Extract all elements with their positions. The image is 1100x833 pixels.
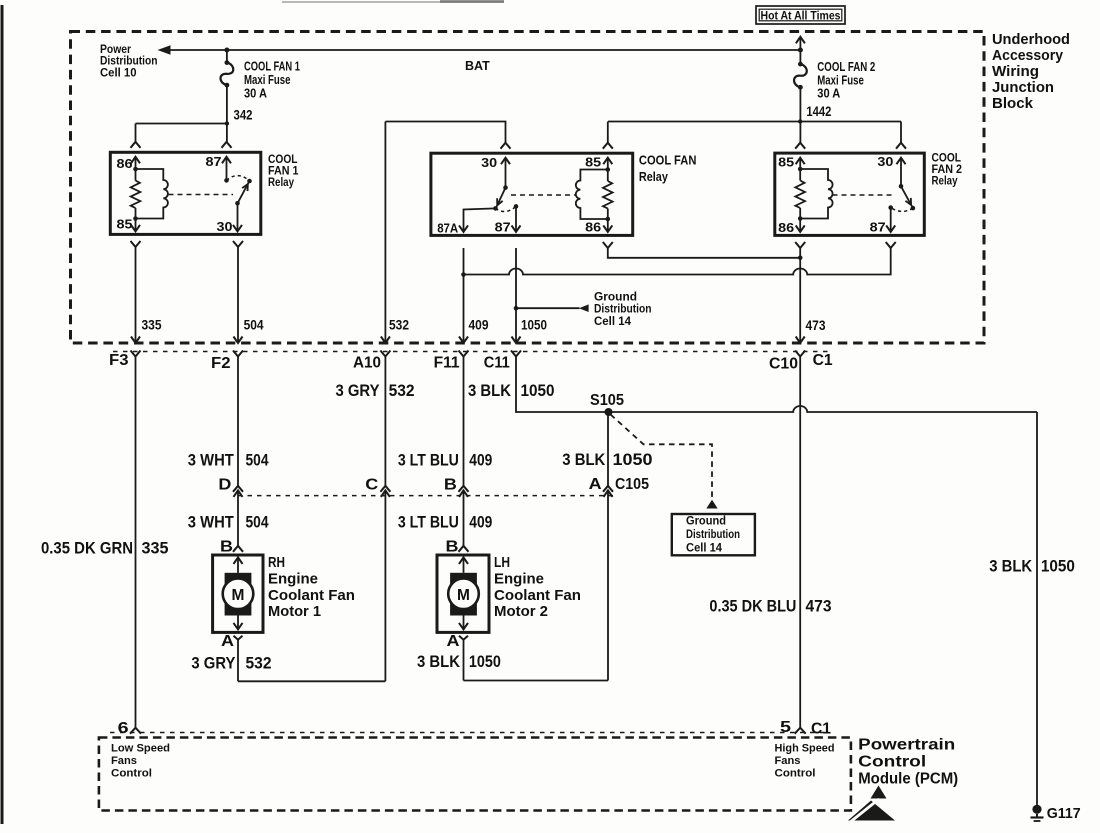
svg-text:Coolant Fan: Coolant Fan	[494, 587, 581, 604]
svg-text:Fans: Fans	[111, 755, 137, 767]
relay K1 pin 30 wire	[237, 203, 239, 231]
svg-text:Ground: Ground	[686, 516, 726, 528]
node relay K1 switch arm tip contact	[247, 179, 252, 184]
svg-text:A: A	[447, 633, 460, 650]
svg-text:473: 473	[806, 597, 832, 616]
svg-text:B: B	[444, 477, 457, 494]
connector A10 fork	[380, 351, 390, 357]
wire 1050 C105 A down	[607, 490, 609, 680]
wire 86s to 473 junction	[608, 248, 800, 258]
wire 409 relay K3 87A to F11	[463, 248, 465, 343]
wire S105 bus to G117 branch	[602, 406, 1037, 412]
svg-text:C10: C10	[769, 356, 798, 373]
svg-text:C1: C1	[813, 352, 833, 369]
node relay K3 coil bottom	[606, 217, 611, 222]
relay K2 switch travel dashed arc	[891, 208, 913, 212]
svg-text:1050: 1050	[469, 652, 501, 671]
svg-text:Low Speed: Low Speed	[111, 743, 170, 755]
node relay K1 switch fixed contact	[224, 178, 229, 183]
svg-text:1050: 1050	[521, 317, 547, 333]
connector interface line below junction block	[113, 351, 833, 353]
ESD sensitive device symbol	[871, 786, 887, 799]
wire relay K2 pin 86 stub	[799, 248, 801, 258]
svg-text:85: 85	[585, 155, 601, 170]
node relay K1 coil top	[133, 167, 138, 172]
svg-text:Junction: Junction	[992, 79, 1054, 96]
node relay K2 coil top	[798, 167, 803, 172]
svg-text:C11: C11	[484, 355, 510, 372]
wire rail fuse2 to relay K2 pins	[608, 121, 901, 123]
wire to Ground Distribution Cell 14 reference	[516, 307, 580, 309]
svg-text:504: 504	[246, 451, 269, 470]
dashed reference wire S105 to Ground Distribution Cell 14	[611, 415, 713, 499]
wire BAT feed	[168, 49, 800, 51]
relay K1 switch arm	[238, 183, 249, 204]
svg-text:3 GRY: 3 GRY	[191, 654, 236, 673]
arrow to Power Distribution Cell 10	[158, 45, 171, 54]
svg-text:1050: 1050	[1041, 557, 1075, 576]
wire 3 BLK 1050 S105 to G117	[1036, 412, 1038, 805]
motor brush top	[450, 573, 477, 585]
relay K3 switch travel dashed arc	[496, 206, 517, 211]
relay K1 pin 86 connector	[131, 142, 141, 148]
svg-text:87: 87	[870, 220, 886, 235]
svg-text:Accessory: Accessory	[992, 47, 1064, 64]
svg-text:335: 335	[142, 539, 169, 558]
svg-text:A10: A10	[353, 355, 381, 372]
connector C10 fork	[795, 351, 805, 357]
relay K3 pin 85 connector	[603, 143, 613, 149]
svg-text:0.35 DK BLU: 0.35 DK BLU	[709, 597, 796, 616]
node relay K3 switch pivot	[503, 185, 508, 190]
wire ground rail 87A to relay K2 pin 87	[464, 248, 891, 275]
relay K2 switch arm	[901, 186, 912, 206]
relay K1 actuate dashed link	[169, 194, 234, 196]
svg-text:F2: F2	[211, 355, 231, 372]
wire 532 C105 C down	[384, 490, 386, 681]
relay K3 pin 86 wire	[607, 219, 609, 232]
svg-text:B: B	[446, 539, 459, 556]
wire 1050 C11 to S105	[516, 357, 602, 413]
motor armature circle M	[448, 579, 479, 610]
svg-text:Wiring: Wiring	[992, 63, 1039, 80]
node junction 1050 / ground reference	[514, 306, 519, 311]
svg-text:Module (PCM): Module (PCM)	[858, 771, 958, 788]
svg-text:532: 532	[246, 654, 272, 673]
wire 3 LT BLU 409 C105 B to motor2 pin B	[459, 490, 468, 497]
svg-text:30: 30	[217, 219, 233, 234]
motor output arrow	[237, 616, 239, 630]
svg-text:1050: 1050	[613, 450, 653, 469]
wire motor1 pin A down	[237, 640, 239, 682]
svg-text:F11: F11	[434, 355, 460, 372]
svg-text:Fans: Fans	[775, 755, 801, 767]
coil relay K2	[800, 169, 832, 219]
relay K2 pin 86 connector below	[795, 242, 805, 248]
page top edge mark	[282, 1, 504, 3]
svg-text:30: 30	[877, 154, 893, 169]
wire 0.35 DK BLU 473 C10 to PCM pin 5	[799, 357, 801, 728]
relay K3 pin 87 wire	[515, 206, 517, 232]
svg-text:87: 87	[206, 154, 222, 169]
svg-text:LH: LH	[494, 554, 510, 571]
relay K1 pin 87 connector	[222, 142, 232, 148]
wire to fuse 2	[799, 50, 801, 64]
svg-text:409: 409	[469, 512, 492, 531]
motor feed arrow	[234, 557, 243, 564]
node splice S105	[605, 408, 613, 416]
svg-text:C105: C105	[615, 476, 649, 493]
relay K3 COOL FAN Relay box	[431, 153, 633, 235]
svg-text:COOL FAN 2: COOL FAN 2	[817, 60, 875, 74]
svg-text:3 BLK: 3 BLK	[562, 450, 606, 469]
node BAT / fuse1 junction	[224, 48, 229, 53]
svg-text:Relay: Relay	[932, 174, 958, 188]
relay K3 pin 30 connector	[501, 143, 511, 149]
svg-text:B: B	[220, 539, 233, 556]
relay K2 COOL FAN 2 Relay box	[775, 153, 925, 235]
svg-text:409: 409	[469, 317, 489, 333]
wire 3 WHT 504 C105 D to motor1 pin B	[234, 490, 243, 497]
svg-text:Engine: Engine	[494, 571, 544, 588]
svg-text:3 LT BLU: 3 LT BLU	[398, 451, 459, 470]
svg-text:1050: 1050	[521, 381, 555, 400]
svg-text:High Speed: High Speed	[775, 743, 835, 755]
connector C105 pin C	[380, 486, 390, 492]
connector F11 fork	[459, 351, 469, 357]
resistor relay K1	[131, 181, 141, 209]
wire 0.35 DK GRN 335 F3 to PCM pin 6	[135, 357, 137, 728]
svg-text:Cell 14: Cell 14	[686, 543, 723, 555]
ground G117	[1032, 805, 1041, 814]
node relay K2 coil bottom	[798, 216, 803, 221]
Powertrain Control Module PCM dashed box	[99, 738, 851, 811]
svg-text:335: 335	[142, 317, 162, 333]
wire rail to relay K3 pin 85	[607, 122, 609, 143]
relay K2 pin 30 connector	[896, 143, 906, 149]
wire 3 GRY 532 A10 to C105 pin C	[384, 357, 386, 486]
svg-text:0.35 DK GRN: 0.35 DK GRN	[41, 539, 133, 558]
svg-text:85: 85	[117, 217, 133, 232]
svg-text:86: 86	[117, 156, 133, 171]
svg-text:3 BLK: 3 BLK	[989, 557, 1033, 576]
motor brush bottom	[225, 603, 252, 616]
relay K1 pin 87 wire	[226, 157, 228, 181]
connector C105 interface line	[238, 495, 614, 497]
wire 3 LT BLU 409 F11 to C105 pin B	[463, 357, 465, 486]
svg-text:Motor 2: Motor 2	[494, 603, 548, 620]
node junction 473	[798, 255, 803, 260]
motor brush bottom	[450, 603, 477, 616]
wire 1050 across to motor2 pin A	[464, 680, 609, 682]
svg-text:RH: RH	[268, 554, 285, 571]
wire 3 WHT 504 F2 to C105 pin D	[237, 357, 239, 486]
svg-text:85: 85	[778, 154, 794, 169]
svg-text:Hot At All Times: Hot At All Times	[761, 8, 841, 22]
svg-text:532: 532	[389, 317, 409, 333]
svg-text:86: 86	[585, 219, 601, 234]
node rail/fuse2 junction	[798, 119, 802, 123]
motor armature circle M	[223, 579, 254, 610]
relay K1 pin 85 connector below	[131, 241, 141, 247]
relay K2 pin 87 connector below	[886, 242, 896, 248]
svg-text:3 LT BLU: 3 LT BLU	[398, 512, 459, 531]
svg-text:Relay: Relay	[268, 175, 294, 189]
wire 532 across to motor1 pin A	[238, 680, 385, 682]
wire 3 BLK 1050 S105 down to C105 pin A	[607, 412, 609, 486]
wire A10 down to junction block exit	[384, 122, 386, 344]
node relay K3 switch arm tip	[493, 206, 498, 211]
resistor relay K2	[795, 181, 805, 209]
wire motor2 pin A down	[463, 640, 465, 681]
node relay K3 contact 87	[514, 204, 519, 209]
svg-text:30 A: 30 A	[817, 87, 840, 101]
motor feed arrow	[459, 557, 468, 564]
svg-text:Engine: Engine	[268, 571, 318, 588]
relay K1 COOL FAN 1 Relay box	[110, 152, 260, 234]
connector to Hot At All Times	[796, 37, 805, 44]
svg-text:504: 504	[244, 317, 264, 333]
svg-text:COOL FAN: COOL FAN	[639, 153, 697, 168]
motor output arrow	[463, 616, 465, 630]
svg-text:3 WHT: 3 WHT	[188, 512, 235, 531]
connector C105 pin A	[603, 486, 613, 492]
Ground Distribution Cell 14 box	[672, 514, 755, 555]
svg-text:Coolant Fan: Coolant Fan	[268, 587, 355, 604]
svg-text:COOL FAN 1: COOL FAN 1	[244, 60, 300, 74]
svg-text:Distribution: Distribution	[686, 529, 740, 541]
node relay K3 coil top	[606, 167, 611, 172]
node rail/fuse-wire junction	[225, 121, 229, 125]
wire to fuse 1	[226, 50, 228, 63]
svg-text:532: 532	[389, 381, 415, 400]
svg-text:M: M	[457, 587, 470, 604]
svg-text:M: M	[232, 587, 245, 604]
relay K2 pin 87 wire	[890, 208, 892, 232]
svg-text:BAT: BAT	[465, 59, 490, 73]
svg-text:Block: Block	[992, 95, 1034, 112]
relay K1 pin 85 wire	[135, 219, 137, 232]
relay K3 pin 86 connector below	[603, 242, 613, 248]
relay K3 actuate dashed link	[511, 194, 576, 196]
wire 1442 fuse2 to rail	[799, 87, 801, 142]
svg-text:3 GRY: 3 GRY	[336, 381, 381, 400]
connector F2 fork	[233, 351, 243, 357]
wire 473 down to junction block exit	[799, 258, 801, 343]
svg-text:87: 87	[495, 219, 511, 234]
svg-text:86: 86	[778, 220, 794, 235]
svg-text:Powertrain: Powertrain	[858, 737, 955, 754]
wire 1050 relay K3 87 to C11	[515, 248, 517, 343]
svg-text:A: A	[221, 633, 234, 650]
relay K2 actuate dashed link	[833, 194, 894, 196]
fuse F1 COOL FAN 1 Maxi Fuse 30A	[225, 60, 230, 65]
svg-text:Underhood: Underhood	[992, 31, 1070, 48]
fuse F2 COOL FAN 2 Maxi Fuse 30A	[798, 62, 803, 67]
wire 87A inside relay K3	[464, 208, 496, 232]
svg-text:5: 5	[780, 719, 791, 736]
relay K2 pin 86 wire	[799, 219, 801, 232]
wire 504 relay K1 pin30 to F2	[237, 247, 239, 343]
svg-text:87A: 87A	[437, 221, 459, 236]
svg-text:Cell 14: Cell 14	[594, 314, 631, 328]
svg-text:342: 342	[234, 107, 253, 123]
node relay K2 contact 87	[888, 205, 893, 210]
svg-text:3 BLK: 3 BLK	[468, 381, 512, 400]
wire rail A10 to relay K3 pin 30	[385, 122, 505, 143]
svg-text:Control: Control	[111, 768, 152, 780]
connector C11 fork	[511, 351, 521, 357]
node relay K2 switch pivot	[899, 184, 904, 189]
node relay K2 switch arm tip	[911, 206, 916, 211]
relay K1 pin 30 connector below	[233, 241, 243, 247]
svg-text:30 A: 30 A	[244, 87, 267, 101]
svg-text:3 WHT: 3 WHT	[188, 451, 235, 470]
node relay K1 coil bottom	[133, 216, 138, 221]
motor box at x=238	[213, 555, 263, 632]
coil relay K3	[576, 170, 608, 220]
svg-text:G117: G117	[1047, 805, 1081, 822]
svg-text:3 BLK: 3 BLK	[417, 652, 461, 671]
relay K3 switch arm	[497, 188, 506, 207]
svg-text:Maxi Fuse: Maxi Fuse	[244, 73, 291, 87]
Hot At All Times label box	[756, 6, 845, 24]
node relay K1 switch pivot	[235, 201, 240, 206]
svg-text:409: 409	[469, 451, 492, 470]
svg-text:6: 6	[118, 720, 129, 737]
svg-text:C1: C1	[811, 721, 831, 738]
svg-text:Cell 10: Cell 10	[100, 65, 137, 79]
svg-text:Maxi Fuse: Maxi Fuse	[817, 73, 864, 87]
node BAT / fuse2 junction	[798, 48, 803, 53]
svg-text:30: 30	[481, 155, 497, 170]
svg-text:F3: F3	[109, 352, 129, 369]
svg-text:473: 473	[806, 317, 826, 333]
wire 335 relay K1 pin85 to F3	[135, 247, 137, 343]
svg-text:Control: Control	[858, 754, 926, 771]
svg-text:Motor 1: Motor 1	[268, 603, 321, 620]
PCM connector interface line	[110, 732, 830, 734]
svg-text:1442: 1442	[806, 103, 831, 119]
connector F3 fork	[131, 351, 141, 357]
wire rail to relay K1 pin 86	[136, 123, 227, 125]
Underhood Accessory Wiring Junction Block dashed boundary	[71, 32, 985, 344]
motor box at x=463.5	[437, 555, 489, 632]
svg-text:Control: Control	[775, 768, 816, 780]
svg-text:C: C	[365, 477, 378, 494]
wire 342 fuse1 to relay K1	[226, 85, 228, 142]
svg-text:A: A	[589, 476, 602, 493]
resistor relay K3	[603, 181, 613, 209]
coil relay K1	[136, 169, 168, 219]
motor1 pin A fork	[234, 636, 243, 640]
svg-text:504: 504	[246, 512, 269, 531]
svg-text:Relay: Relay	[639, 169, 669, 184]
svg-text:S105: S105	[590, 392, 624, 409]
node junction 87A / ground rail	[461, 272, 466, 277]
svg-text:D: D	[218, 477, 231, 494]
relay K1 switch travel dashed arc	[227, 176, 250, 181]
page left border	[1, 5, 4, 824]
motor2 pin A fork	[459, 636, 468, 640]
motor brush top	[225, 573, 252, 585]
relay K2 pin 85 connector	[795, 143, 805, 149]
